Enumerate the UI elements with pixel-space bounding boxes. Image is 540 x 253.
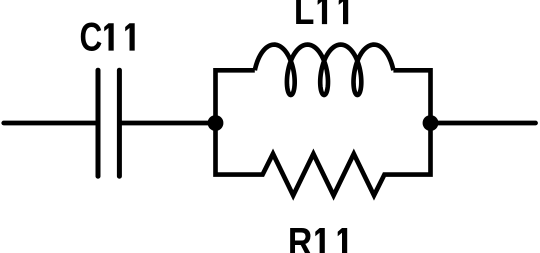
svg-text:R: R — [288, 219, 312, 253]
svg-text:C: C — [80, 14, 103, 59]
svg-text:L: L — [294, 0, 315, 33]
